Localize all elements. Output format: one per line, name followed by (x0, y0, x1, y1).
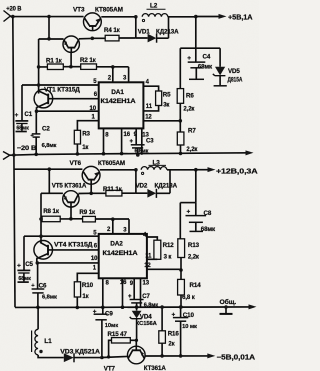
svg-text:С3: С3 (146, 139, 154, 145)
resistor R1 1k (39, 58, 71, 70)
capacitor C6 6.8uF (31, 263, 57, 307)
svg-text:+: + (128, 294, 132, 300)
wire VT2 collector to VT3 base node (79, 37, 93, 39)
transistor VT6 KT605AM (pass, inline on +12V rail) (70, 160, 126, 184)
node -20V input terminal (3, 145, 37, 160)
svg-text:R15 47: R15 47 (108, 331, 128, 338)
svg-text:КТ361А: КТ361А (144, 365, 167, 371)
svg-text:С2: С2 (42, 126, 50, 133)
wire +5V output arrow (196, 13, 254, 22)
svg-text:R7: R7 (188, 127, 196, 134)
wire VT6 base down to R11 row (90, 184, 92, 193)
transistor VT4 KT315D (34, 241, 93, 260)
node junction +12V branch (194, 168, 198, 172)
inductor L1 (vertical, with core) (32, 307, 53, 354)
svg-text:С10: С10 (183, 312, 195, 319)
svg-text:Д815А: Д815А (228, 78, 243, 84)
diode VD3 KD521A (60, 349, 101, 363)
svg-text:+: + (15, 112, 19, 119)
wire -5V output line (102, 356, 128, 357)
resistor R7 2.2k (177, 127, 197, 153)
svg-text:VT6: VT6 (70, 160, 82, 167)
node arrow right end of common rail (246, 150, 254, 155)
svg-text:VD1: VD1 (138, 29, 150, 36)
wire DA2 pin1 to R10 (77, 273, 98, 282)
capacitor C10 10uF (172, 307, 198, 356)
svg-text:R1 1к: R1 1к (46, 58, 63, 65)
svg-text:1к: 1к (82, 294, 88, 300)
op-amp U2: IC DA2 K142EN1A (91, 227, 152, 287)
wire VT2 emitter row (39, 38, 64, 40)
capacitor C7 6.8uF (128, 294, 158, 308)
svg-text:R13: R13 (188, 242, 200, 249)
svg-text:68мк: 68мк (18, 276, 31, 282)
resistor R2 1k (71, 57, 129, 69)
svg-text:+: + (130, 139, 134, 145)
node junction pin5/base column (37, 83, 41, 87)
svg-text:R2 1к: R2 1к (80, 57, 97, 64)
transistor VT7 KT361A (inline on -5V rail, base up) (104, 340, 167, 371)
wire VT1 emitter corner (36, 107, 38, 111)
node junction VD4/R15/VT7 base (135, 339, 138, 342)
wire VT2 base down to R1-R2 midpoint (70, 52, 72, 66)
svg-text:R12: R12 (163, 242, 175, 249)
resistor R8 1k (41, 208, 71, 222)
wire DA1 pin5 line (22, 84, 99, 86)
node junction left rail top (11, 15, 15, 19)
svg-text:VT5 КТ361А: VT5 КТ361А (52, 182, 87, 189)
svg-text:R16: R16 (168, 331, 180, 338)
svg-text:КТ805АМ: КТ805АМ (95, 7, 123, 14)
svg-text:+: + (172, 311, 176, 318)
node arrow -5V output (207, 353, 215, 358)
svg-text:−5В,0,01А: −5В,0,01А (217, 354, 256, 361)
wire pin3 corner (128, 219, 130, 234)
resistor R6 2.2k (177, 89, 194, 132)
capacitor C5 68uF (17, 236, 34, 282)
wire R6 column top (179, 48, 181, 88)
svg-text:L1: L1 (44, 338, 52, 345)
svg-text:+: + (187, 209, 191, 216)
svg-text:L2: L2 (150, 3, 158, 10)
svg-text:13: 13 (143, 281, 150, 287)
node arrow right end of 0 rail (249, 304, 257, 309)
svg-text:VD3 КД521А: VD3 КД521А (60, 349, 100, 356)
svg-text:3 к: 3 к (164, 255, 172, 261)
transistor VT1 KT315D (34, 86, 80, 108)
wire VT4 emitter corner (36, 258, 38, 263)
wire node down to R4/VD1 tee (135, 17, 137, 38)
svg-text:2к: 2к (168, 342, 174, 348)
wire DA2 pin12 to R13/R14 column (147, 268, 181, 270)
wire L2 right to +5V node (168, 16, 196, 18)
wire pin10 line (37, 110, 99, 112)
svg-text:68мк: 68мк (16, 126, 29, 132)
resistor R16 2k (159, 307, 180, 356)
wire VT3 right side to L2 node (101, 16, 136, 18)
node junction +5V branch (194, 15, 198, 19)
svg-text:С1: С1 (24, 111, 32, 118)
wire DA2 pin8 down to common rail and C9 (102, 278, 104, 307)
transistor VT5 KT361A (inline, base down) (52, 182, 87, 218)
svg-text:К142ЕН1А: К142ЕН1А (101, 99, 137, 105)
svg-text:+: + (17, 263, 21, 270)
svg-text:R11 1к: R11 1к (103, 186, 123, 193)
svg-text:КД213А: КД213А (155, 182, 178, 189)
svg-text:12: 12 (145, 114, 152, 120)
node junction pin2 tap (111, 65, 115, 69)
svg-text:DA2: DA2 (110, 241, 123, 248)
node junction pin5/base column (39, 234, 43, 238)
transistor VT2 (inline, base down) (63, 36, 79, 52)
wire pin2 stub (112, 219, 114, 234)
svg-text:10: 10 (91, 256, 98, 262)
capacitor C9 10uF (on pin8 column) (93, 307, 118, 357)
svg-text:16: 16 (124, 132, 131, 138)
node junction VT2 row at x49 (47, 37, 51, 41)
wire lower section feed line (14, 168, 82, 170)
node junction R8-R9 midpoint (69, 217, 73, 221)
svg-text:КС156А: КС156А (136, 321, 158, 327)
svg-text:R4 1к: R4 1к (104, 27, 121, 34)
op-amp U1: IC DA1 K142EN1A (90, 76, 153, 139)
svg-text:КД213А: КД213А (156, 29, 179, 36)
wire +12V node down to C8 tee (195, 170, 197, 203)
svg-text:VT3: VT3 (73, 7, 85, 14)
svg-text:11: 11 (146, 104, 153, 110)
svg-text:+: + (93, 308, 97, 315)
wire +12V output arrow (196, 167, 258, 176)
node junction pin2 tap (111, 217, 115, 221)
capacitor C1 68uF (15, 85, 33, 132)
svg-text:2,2к: 2,2к (188, 255, 199, 261)
svg-text:VD5: VD5 (228, 68, 240, 75)
svg-text:11: 11 (145, 253, 152, 259)
svg-text:1к: 1к (82, 145, 88, 151)
svg-text:С8: С8 (204, 210, 212, 217)
wire DA1 pin8 down to common rail (103, 128, 105, 153)
wire DA1 pin1 to R3 (77, 121, 98, 131)
wire +5V node down to C4/VD5 tee (195, 17, 197, 49)
wire VT5 collector to VT6 base node (79, 192, 92, 194)
svg-text:R14: R14 (190, 282, 202, 289)
wire DA2 pin13 down to common rail (140, 278, 142, 307)
node junction R16 bottom (160, 354, 164, 358)
svg-text:−20 В: −20 В (17, 145, 37, 152)
svg-text:+12В,0,3А: +12В,0,3А (216, 169, 258, 176)
inductor L2 (142, 3, 168, 22)
wire base feed column x38.6 (R1 left / pin5 / VT1 base) (38, 39, 40, 94)
node junction R1-R2 midpoint (69, 65, 73, 69)
wire node down to R11/VD2 tee (135, 170, 137, 193)
wire DA1 pin9 down to C3 (135, 128, 137, 144)
svg-text:13: 13 (142, 132, 149, 138)
svg-text:6,8мк: 6,8мк (42, 295, 57, 301)
capacitor C2 6.8uF (30, 111, 56, 154)
diode VD5 zener D815A (213, 48, 243, 86)
svg-text:VD2: VD2 (136, 182, 148, 189)
svg-text:10мк: 10мк (105, 323, 118, 329)
svg-text:6,8мк: 6,8мк (42, 143, 57, 149)
wire DA1 pin13 down to common rail (141, 128, 143, 154)
resistor R15 47 (108, 331, 137, 357)
wire left rail (input bus down to common rail) (13, 17, 15, 308)
wire DA1 pin12 to R6/R7 column (143, 120, 180, 122)
svg-text:68мк: 68мк (201, 226, 216, 233)
wire R13 tee line (180, 202, 196, 204)
node junction R1 left on base column (37, 65, 41, 69)
wire L1 bottom to -5V line (38, 355, 64, 358)
node junction at x49 on top rail (47, 15, 51, 19)
node junction VT3 base / R4 (91, 37, 95, 41)
wire DA2 pin4 to R12 top (147, 237, 157, 240)
capacitor C3 6.8uF (130, 139, 155, 155)
wire DA2 pin16 down to common rail (122, 278, 124, 307)
resistor R10 1k (74, 282, 93, 308)
node junction VT6 base / R11 row (89, 192, 93, 196)
wire base feed column x41 (R8 left / pin5 / VT4 base) (40, 193, 42, 243)
svg-text:3к: 3к (163, 103, 169, 109)
svg-text:R5: R5 (163, 92, 171, 99)
svg-text:R10: R10 (82, 282, 94, 289)
capacitor C4 68uF (187, 48, 213, 79)
svg-text:С7: С7 (142, 294, 150, 300)
svg-text:VT4 КТ315Д: VT4 КТ315Д (54, 242, 93, 249)
wire pin10 line (37, 262, 99, 264)
svg-text:VT1 КТ315Д: VT1 КТ315Д (44, 86, 80, 93)
diode VD4 zener KS156A (130, 307, 158, 340)
inductor L3 (141, 159, 167, 174)
wire DA2 pin9 down to C7 (133, 278, 135, 299)
svg-text:К142ЕН1А: К142ЕН1А (103, 251, 139, 257)
wire DA1 pin4 to R5 top (143, 86, 158, 91)
svg-text:Общ.: Общ. (220, 298, 237, 306)
wire 0 (common) output rail (15, 306, 253, 309)
svg-text:+20 В: +20 В (6, 5, 22, 12)
svg-text:С6: С6 (39, 282, 47, 289)
resistor R11 1k (91, 186, 136, 196)
wire pin3 corner (128, 67, 130, 82)
ground (220, 305, 233, 314)
svg-text:10: 10 (90, 106, 97, 112)
svg-text:2,2к: 2,2к (186, 147, 197, 153)
transistor VT3 KT805AM (pass, inline on +5V rail) (73, 7, 123, 31)
svg-text:6,8 к: 6,8 к (182, 295, 195, 301)
wire pin2 stub (112, 67, 114, 82)
svg-text:КТ605АМ: КТ605АМ (98, 160, 125, 167)
svg-text:12: 12 (144, 263, 151, 269)
svg-text:R6: R6 (186, 93, 194, 100)
resistor R3 1k (74, 130, 90, 154)
resistor R5 3k (143, 91, 171, 111)
resistor R14 6.8k (178, 279, 202, 307)
wire R13 column top (179, 203, 181, 239)
wire down to VT5 row (48, 169, 50, 193)
svg-text:С5: С5 (25, 261, 33, 268)
svg-text:+5В,1А: +5В,1А (228, 13, 253, 22)
svg-text:R8 1к: R8 1к (43, 208, 60, 215)
wire VT1 base to DA1 pin6 (48, 98, 98, 100)
node junction C10 bottom (179, 354, 183, 358)
wire VT6 right to L3 node (100, 169, 136, 171)
wire DA2 pin5 line (24, 235, 99, 237)
resistor R4 1k (92, 27, 136, 41)
wire VT5 row left (41, 192, 63, 194)
svg-text:R3: R3 (82, 130, 90, 137)
node +20V input terminal (4, 5, 22, 21)
resistor R12 3k (147, 240, 174, 260)
capacitor C8 68uF (186, 203, 216, 234)
svg-text:2,2к: 2,2к (183, 106, 194, 112)
node junction x49 lower feed (48, 167, 52, 171)
svg-text:R9 1к: R9 1к (79, 209, 96, 216)
svg-text:С9: С9 (105, 310, 113, 317)
svg-text:VD4: VD4 (140, 314, 152, 321)
diode VD2 KD213A (across L3) (136, 170, 178, 198)
wire +20V top rail (10, 16, 83, 18)
wire 0/common rail (upper) (10, 153, 250, 155)
svg-text:С4: С4 (203, 54, 211, 61)
svg-text:16: 16 (120, 280, 127, 286)
svg-text:DA1: DA1 (111, 89, 124, 96)
wire DA1 pin16 down to common rail (121, 128, 123, 153)
wire from top rail down to VT2 emitter row (48, 17, 50, 39)
wire C4/VD5/R6 node line (180, 47, 220, 49)
node junction L2 left (134, 15, 138, 19)
svg-text:68мк: 68мк (198, 64, 213, 71)
diode VD1 KD213A (across L2) (136, 17, 179, 43)
svg-text:10 мк: 10 мк (182, 324, 197, 330)
wire L3 right to +12V node (167, 169, 196, 171)
resistor R9 1k (71, 209, 129, 222)
node junction L3 left (134, 168, 138, 172)
resistor R13 2.2k (178, 239, 200, 280)
svg-text:+: + (187, 55, 191, 62)
svg-text:VT7: VT7 (104, 365, 116, 371)
wire VT4 base to DA2 pin6 (48, 249, 99, 251)
